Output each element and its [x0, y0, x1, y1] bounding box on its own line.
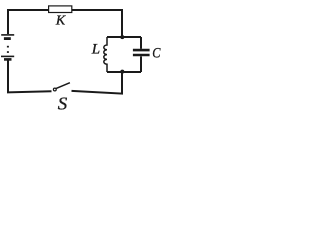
resistor K box	[49, 6, 72, 13]
wire switch to bottom-right corner up to tank junction	[72, 72, 123, 94]
svg-text:C: C	[152, 44, 161, 60]
svg-text:K: K	[55, 14, 66, 29]
junction node top	[120, 35, 124, 39]
capacitor C top lead	[140, 37, 142, 49]
wire left-bottom vertical and bottom rail to switch	[8, 60, 52, 92]
battery cell2 short thick plate	[4, 58, 12, 61]
battery cell2 long thin plate	[1, 55, 14, 57]
switch S blade	[56, 83, 70, 89]
tank top rail	[107, 36, 141, 38]
battery continuation dot lower	[7, 51, 9, 53]
battery cell1 long thin plate	[1, 34, 14, 36]
battery cell1 short thick plate	[4, 37, 11, 40]
junction node bottom	[120, 70, 124, 74]
wire resistor to top-right corner down to tank junction	[72, 10, 122, 37]
tank bottom rail	[107, 71, 141, 73]
capacitor C bottom plate	[133, 54, 150, 57]
battery continuation dot upper	[7, 46, 9, 48]
inductor L: top lead, 4 coil bumps, bottom lead	[104, 37, 107, 72]
wire left-top vertical and top rail to resistor	[8, 10, 49, 34]
svg-text:S: S	[58, 94, 67, 111]
capacitor C bottom lead	[140, 56, 142, 72]
switch S pivot circle	[53, 88, 56, 91]
svg-text:L: L	[91, 41, 100, 57]
capacitor C top plate	[133, 49, 150, 52]
